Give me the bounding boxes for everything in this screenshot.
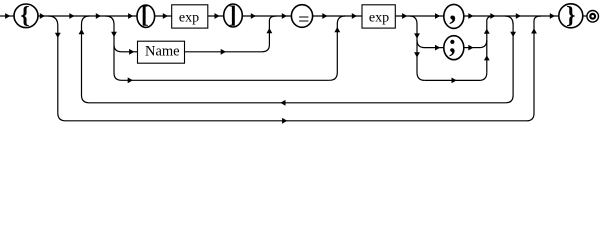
wire knee E to semicolon row [417,40,425,48]
wire main line between [ and exp box [155,15,172,17]
arrow up on Name merge [267,28,273,33]
wire semicolon row before ; [425,47,444,49]
nonterminal box Name [138,41,185,63]
arrow down on branch C [111,32,117,37]
arrow after , [468,13,473,19]
wire knee C to Name row [114,45,122,52]
arrow down on branch E lower [414,52,420,57]
arrow before exp box 2 [352,13,357,19]
wire main line after { [38,15,137,17]
arrow right before ; [435,45,440,51]
terminal ellipse { [14,4,38,28]
wire loop merge B up [82,16,90,103]
wire main line between ] and = [242,15,291,17]
svg-text:]: ] [229,2,237,28]
arrow down on branch A [55,33,61,38]
wire semicolon row after ; [464,47,479,49]
arrow after exp box [215,13,220,19]
arrow down on loop entry G [510,32,516,37]
arrow before [ [128,13,133,19]
wire main line between exp box 2 and , [395,15,443,17]
wire skip-fieldsep merge up to F [479,73,487,81]
wire Name row merge up [262,16,277,52]
wire main line between = and exp box 2 [313,15,362,17]
wire branch A down after { [48,16,66,121]
arrow down on branch E upper [414,33,420,38]
wire connector } to end [583,15,587,17]
wire branch C down to Name and exp rows [106,16,115,73]
svg-text:;: ; [448,29,457,58]
arrow up on merge F upper [484,29,490,34]
wire Name row before box [122,51,138,53]
wire bottom bypass right corner up H [527,16,542,121]
svg-text:exp: exp [179,11,199,26]
svg-text:,: , [449,0,456,27]
svg-text:exp: exp [369,11,389,26]
arrow up on merge B [79,29,85,34]
wire exp bypass row y80 [122,79,330,81]
wire main line entry [0,15,14,17]
terminal ellipse ] [224,4,243,27]
arrow after { [40,13,45,19]
arrow up on bypass merge H [531,28,537,33]
arrow after exp box 2 [402,13,407,19]
arrow after = [322,13,327,19]
nonterminal box exp 1 [172,5,208,28]
arrow before = [282,13,287,19]
arrow before } [550,13,555,19]
wire skip-fieldsep row y80 [425,79,479,81]
end symbol double circle [587,10,599,22]
arrow entry [5,13,10,19]
wire knee E to skip-fieldsep row [417,73,425,81]
terminal ellipse , [444,4,464,28]
arrow after merge B [96,13,101,19]
terminal ellipse = [291,5,312,28]
arrow right on bottom bypass [282,118,287,124]
arrow right after ; [468,45,473,51]
wire main line between exp box and ] [208,15,224,17]
terminal ellipse } [559,4,583,28]
wire branch E down after exp [410,16,418,73]
svg-text:[: [ [141,2,149,28]
arrow right after Name box [221,49,226,55]
arrow before , [435,13,440,19]
svg-text:=: = [298,9,309,31]
svg-text:Name: Name [145,44,180,60]
wire loop entry G down [505,16,513,103]
wire vertical F up to main [487,16,494,73]
wire Name row after box [185,51,263,53]
terminal ellipse [ [137,5,155,27]
arrow up on merge D [334,27,340,32]
arrow before merge B [69,13,74,19]
arrow right on Name row [129,49,134,55]
nonterminal box exp 2 [362,5,395,28]
wire knee C to exp bypass row [114,73,122,80]
arrow before exp box [163,13,168,19]
arrow right on exp bypass row [128,77,133,83]
wire bottom bypass line [66,120,527,122]
arrow after merge F [490,13,495,19]
arrow after ] [251,13,256,19]
wire exp bypass merge D up [329,16,345,80]
arrow right on skip-fieldsep row [452,78,457,84]
arrow up on merge F lower [484,55,490,60]
wire main line between , and } [464,15,559,17]
wire semicolon row merge up to F [479,40,487,47]
svg-text:{: { [20,3,29,29]
svg-text:}: } [566,3,575,29]
wire loop line y103 [89,102,506,104]
arrow left on loop line [280,100,285,106]
arrow after branch G [516,13,521,19]
terminal ellipse ; [444,36,464,60]
